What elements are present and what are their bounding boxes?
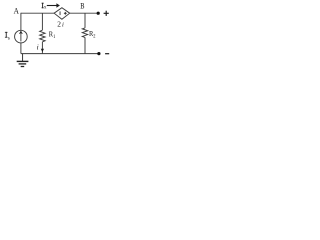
svg-text:s: s: [8, 35, 10, 41]
svg-text:x: x: [44, 4, 47, 10]
minus terminal label: [105, 53, 109, 54]
current i arrow on R1 lower wire: [41, 49, 44, 52]
svg-text:i: i: [37, 45, 39, 52]
wire R1 branch top: [41, 13, 43, 30]
Ix arrow: [47, 5, 57, 7]
current source Is circle: [15, 30, 28, 43]
resistor R2: [82, 28, 87, 38]
plus terminal label: [104, 11, 109, 16]
wire left branch (node A down to current source): [20, 13, 22, 31]
svg-text:R2: R2: [89, 29, 96, 39]
ground: [17, 54, 29, 67]
current source arrow: [20, 31, 23, 41]
plus polarity inside diamond: [64, 12, 67, 15]
wire R1 bottom to rail: [41, 42, 43, 54]
svg-text:2i: 2i: [57, 19, 64, 28]
label Is: [5, 32, 8, 38]
resistor R1: [40, 30, 45, 42]
label Ix: [42, 3, 44, 8]
svg-text:B: B: [80, 1, 84, 11]
terminal dot top right: [97, 12, 100, 15]
wire diamond to top-right terminal: [70, 12, 99, 14]
dependent source diamond: [54, 8, 70, 20]
wire top-left node A to diamond: [21, 12, 54, 14]
svg-text:R1: R1: [49, 30, 56, 40]
terminal dot bottom right: [97, 52, 100, 55]
wire R2 bottom to rail: [84, 37, 86, 53]
svg-text:A: A: [14, 6, 19, 16]
wire R2 branch top: [84, 13, 86, 28]
wire current source to bottom rail: [20, 43, 22, 54]
minus polarity inside diamond: [59, 11, 62, 15]
wire bottom rail: [21, 53, 99, 55]
